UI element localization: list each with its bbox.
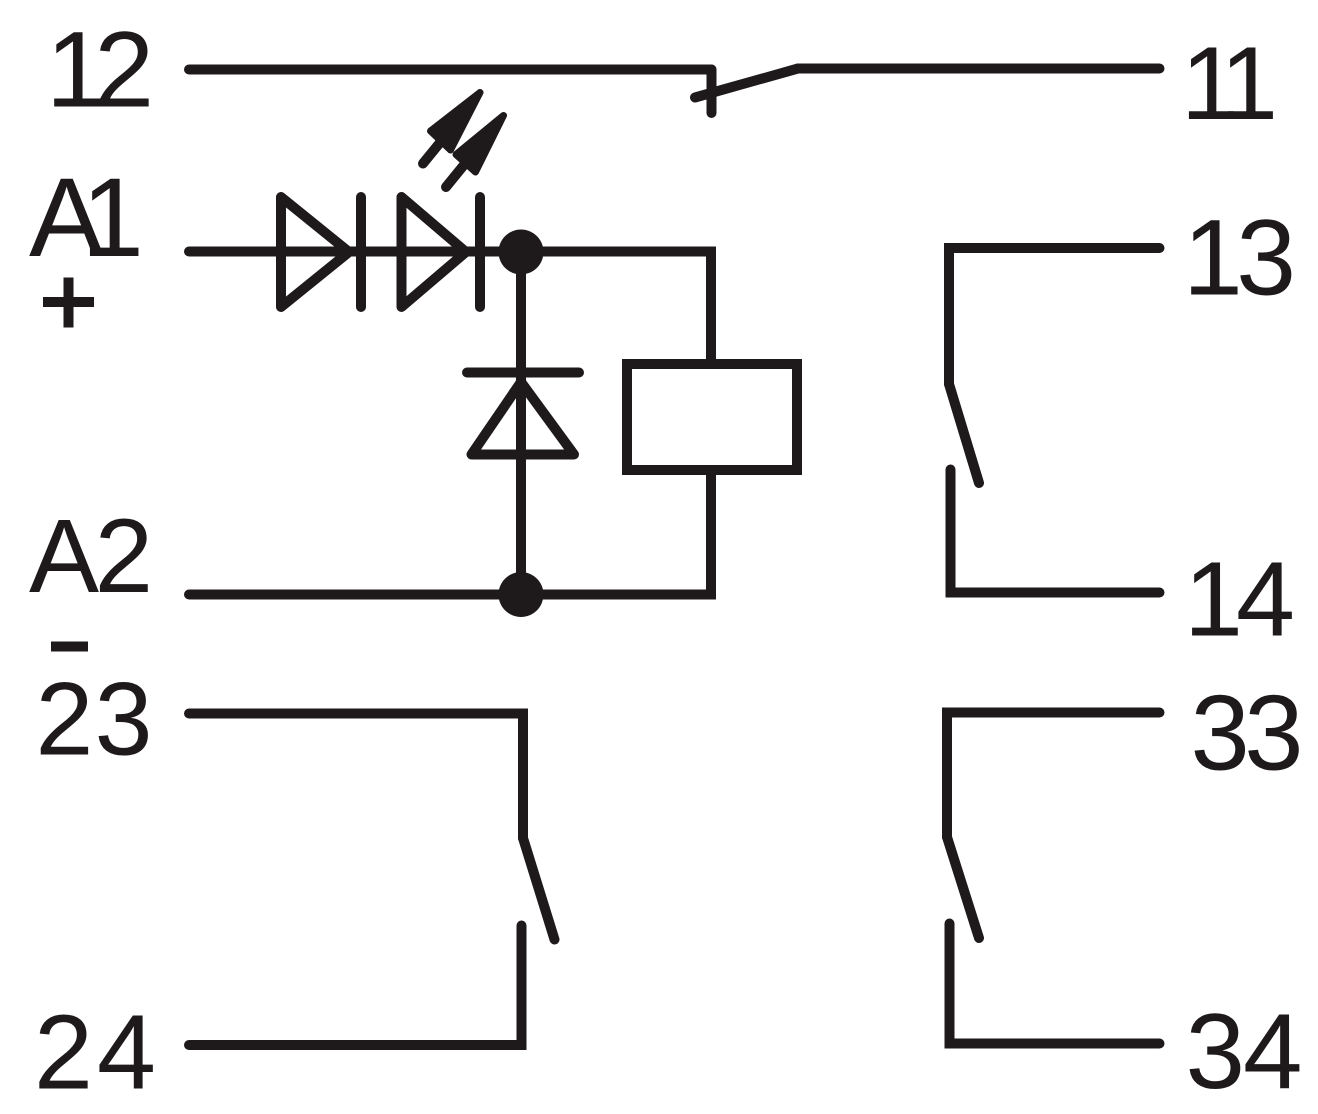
svg-text:A2: A2 — [29, 498, 153, 615]
svg-text:33: 33 — [1191, 674, 1304, 793]
svg-text:11: 11 — [1181, 26, 1278, 142]
svg-text:24: 24 — [34, 994, 156, 1112]
svg-text:34: 34 — [1186, 991, 1303, 1111]
svg-text:14: 14 — [1184, 541, 1295, 659]
svg-text:A1: A1 — [29, 154, 144, 280]
svg-text:12: 12 — [46, 10, 154, 130]
svg-text:13: 13 — [1183, 198, 1296, 318]
svg-text:23: 23 — [36, 662, 153, 778]
